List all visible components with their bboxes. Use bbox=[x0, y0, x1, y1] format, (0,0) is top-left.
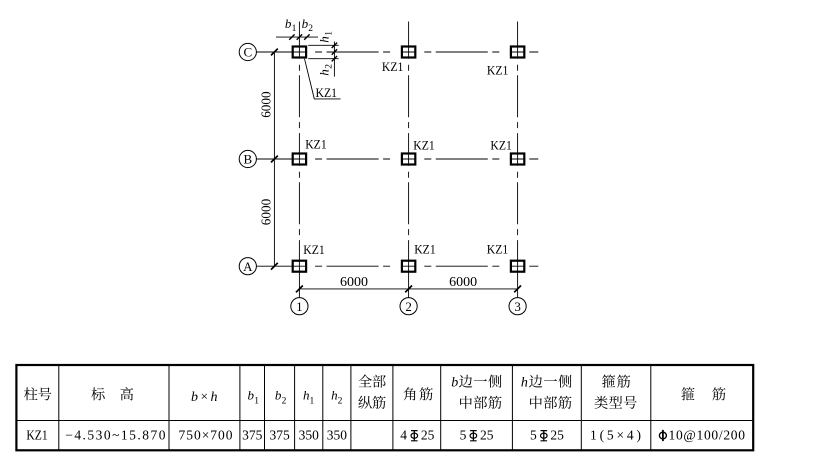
dimension tick at col 1 bbox=[296, 286, 303, 293]
dimension tick at row C bbox=[271, 49, 278, 56]
svg-text:KZ1: KZ1 bbox=[305, 136, 327, 151]
svg-text:h: h bbox=[211, 390, 218, 405]
table outer border bbox=[16, 365, 753, 450]
column KZ1 at B3 bbox=[511, 154, 524, 165]
svg-text:h: h bbox=[316, 36, 331, 43]
svg-text:KZ1: KZ1 bbox=[487, 62, 509, 77]
column KZ1 at A1 bbox=[293, 261, 306, 272]
svg-text:5: 5 bbox=[460, 428, 467, 443]
extension line bottom edge of C1 bbox=[308, 58, 338, 60]
svg-text:1: 1 bbox=[292, 24, 297, 34]
svg-text:b: b bbox=[451, 376, 458, 391]
svg-text:2: 2 bbox=[308, 24, 313, 34]
svg-text:5: 5 bbox=[530, 428, 537, 443]
dimension tick h middle bbox=[332, 49, 337, 54]
svg-text:2: 2 bbox=[405, 299, 412, 314]
dimension tick b left bbox=[289, 34, 294, 39]
grid bubble 1 bbox=[291, 298, 308, 315]
header 箍筋 (hoop) bbox=[681, 387, 694, 400]
svg-text:h: h bbox=[521, 376, 528, 391]
axis line 3 (vertical grid line) bbox=[517, 22, 519, 298]
svg-text:KZ1: KZ1 bbox=[303, 242, 325, 257]
svg-text:750×700: 750×700 bbox=[179, 428, 233, 443]
header 柱号 bbox=[24, 387, 37, 400]
svg-text:6000: 6000 bbox=[259, 198, 274, 225]
column KZ1 at B2 bbox=[402, 154, 415, 165]
header 箍筋类型号 bbox=[602, 375, 615, 388]
dimension tick h bottom bbox=[332, 56, 337, 61]
svg-text:375: 375 bbox=[269, 428, 290, 443]
svg-text:1: 1 bbox=[296, 299, 303, 314]
svg-text:KZ1: KZ1 bbox=[413, 137, 435, 152]
table header separator bbox=[16, 420, 753, 422]
data 箍筋 Φ10@100/200 bbox=[659, 430, 666, 441]
column KZ1 at C3 bbox=[511, 47, 524, 58]
column KZ1 at C2 bbox=[402, 47, 415, 58]
svg-text:h: h bbox=[316, 69, 331, 76]
table column border 10 bbox=[511, 365, 513, 450]
grid bubble B bbox=[239, 150, 256, 167]
table column border 5 bbox=[294, 365, 296, 450]
svg-text:25: 25 bbox=[550, 428, 564, 443]
dimension line (bottom, cols 1-3) bbox=[299, 288, 517, 290]
dimension tick h top bbox=[332, 43, 337, 48]
svg-text:×: × bbox=[201, 389, 208, 404]
svg-text:1: 1 bbox=[254, 396, 259, 406]
column KZ1 at B1 bbox=[293, 154, 306, 165]
svg-text:2: 2 bbox=[338, 396, 343, 406]
table column border 2 bbox=[168, 365, 170, 450]
grid bubble C bbox=[239, 43, 256, 60]
svg-text:10@100/200: 10@100/200 bbox=[669, 428, 746, 443]
dimension line h1/h2 right of column C1 bbox=[333, 42, 335, 77]
dimension line (left, rows C-A) bbox=[273, 52, 275, 266]
dimension tick b right bbox=[304, 34, 309, 39]
table column border 11 bbox=[580, 365, 582, 450]
svg-text:4: 4 bbox=[400, 428, 407, 443]
table column border 7 bbox=[350, 365, 352, 450]
axis line 2 (vertical grid line) bbox=[408, 22, 410, 298]
svg-text:KZ1: KZ1 bbox=[490, 138, 512, 153]
svg-text:KZ1: KZ1 bbox=[414, 242, 436, 257]
extension line top edge of C1 bbox=[308, 44, 338, 46]
dimension tick at col 3 bbox=[514, 286, 521, 293]
svg-text:b: b bbox=[191, 390, 198, 405]
table column border 6 bbox=[322, 365, 324, 450]
dimension tick at row B bbox=[271, 156, 278, 163]
column KZ1 at A2 bbox=[402, 261, 415, 272]
table column border 1 bbox=[58, 365, 60, 450]
grid bubble A bbox=[239, 258, 256, 275]
table column border 9 bbox=[440, 365, 442, 450]
table column border 4 bbox=[264, 365, 266, 450]
grid bubble 3 bbox=[509, 298, 526, 315]
svg-text:KZ1: KZ1 bbox=[316, 85, 338, 100]
svg-text:C: C bbox=[243, 45, 252, 60]
table column border 8 bbox=[392, 365, 394, 450]
svg-text:1: 1 bbox=[310, 396, 315, 406]
grid bubble 2 bbox=[400, 298, 417, 315]
dimension tick at col 2 bbox=[405, 286, 412, 293]
svg-text:KZ1: KZ1 bbox=[382, 59, 404, 74]
svg-text:25: 25 bbox=[421, 428, 435, 443]
axis line C (horizontal grid line) bbox=[256, 51, 538, 53]
axis line B (horizontal grid line) bbox=[256, 158, 538, 160]
svg-text:KZ1: KZ1 bbox=[26, 428, 47, 443]
table column border 12 bbox=[650, 365, 652, 450]
dimension line b1/b2 above column C1 bbox=[276, 36, 318, 38]
column KZ1 at A3 bbox=[511, 261, 524, 272]
table column border 3 bbox=[239, 365, 241, 450]
svg-text:A: A bbox=[243, 259, 253, 274]
svg-text:350: 350 bbox=[299, 428, 320, 443]
svg-text:25: 25 bbox=[480, 428, 494, 443]
svg-text:2: 2 bbox=[282, 396, 287, 406]
column KZ1 at C1 bbox=[293, 47, 306, 58]
svg-text:−4.530~15.870: −4.530~15.870 bbox=[65, 428, 166, 443]
svg-text:2: 2 bbox=[325, 64, 335, 69]
leader line for KZ1 at C1 bbox=[305, 59, 341, 99]
svg-text:KZ1: KZ1 bbox=[487, 242, 509, 257]
header 全部纵筋 bbox=[358, 375, 371, 388]
dimension tick b middle bbox=[297, 34, 302, 39]
axis line A (horizontal grid line) bbox=[256, 265, 538, 267]
svg-text:375: 375 bbox=[242, 428, 263, 443]
header 标高 bbox=[91, 387, 104, 400]
svg-text:350: 350 bbox=[327, 428, 348, 443]
dimension tick at row A bbox=[271, 263, 278, 270]
header 角筋 bbox=[404, 387, 416, 400]
axis line 1 (vertical grid line) bbox=[298, 22, 300, 298]
svg-text:3: 3 bbox=[514, 299, 521, 314]
svg-text:6000: 6000 bbox=[340, 275, 368, 290]
svg-text:6000: 6000 bbox=[259, 91, 274, 118]
svg-text:6000: 6000 bbox=[449, 275, 477, 290]
svg-text:1: 1 bbox=[325, 31, 335, 36]
svg-text:B: B bbox=[243, 152, 252, 167]
